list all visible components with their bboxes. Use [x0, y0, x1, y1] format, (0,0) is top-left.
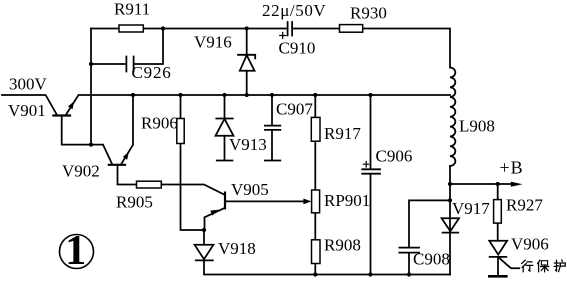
svg-text:V916: V916	[194, 33, 232, 52]
svg-text:+B: +B	[500, 158, 524, 178]
svg-text:R917: R917	[324, 124, 361, 143]
svg-text:C926: C926	[132, 63, 172, 82]
svg-text:C910: C910	[279, 39, 316, 58]
svg-text:V918: V918	[218, 239, 256, 258]
svg-text:R906: R906	[141, 114, 178, 133]
svg-text:V913: V913	[229, 135, 267, 154]
svg-text:R927: R927	[506, 196, 543, 215]
svg-text:V905: V905	[231, 180, 269, 199]
svg-text:V902: V902	[62, 162, 100, 181]
svg-text:R908: R908	[324, 236, 361, 255]
svg-text:1: 1	[65, 228, 86, 274]
svg-text:V917: V917	[452, 199, 490, 218]
svg-text:V906: V906	[511, 235, 549, 254]
svg-text:V901: V901	[8, 101, 46, 120]
svg-text:RP901: RP901	[324, 191, 370, 210]
svg-text:300V: 300V	[9, 75, 48, 94]
svg-text:R905: R905	[116, 193, 153, 212]
svg-text:L908: L908	[459, 117, 495, 136]
svg-text:22μ/50V: 22μ/50V	[262, 1, 326, 20]
svg-text:R911: R911	[114, 0, 150, 19]
svg-text:C907: C907	[276, 100, 313, 119]
svg-text:C906: C906	[376, 147, 413, 166]
svg-text:C908: C908	[413, 250, 450, 269]
svg-text:R930: R930	[350, 4, 387, 23]
